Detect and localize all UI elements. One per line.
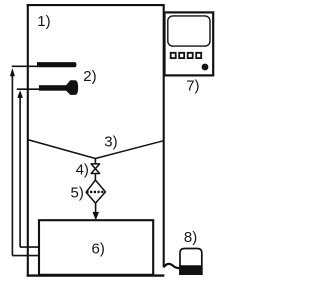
svg-text:8): 8) bbox=[184, 229, 197, 246]
monitor 7 button 4 bbox=[196, 53, 201, 58]
wire 2 bottom horizontal bbox=[20, 246, 39, 248]
filter 5 dashed diagonal bbox=[86, 191, 105, 193]
svg-text:1): 1) bbox=[37, 13, 50, 30]
monitor 7 screen bbox=[168, 16, 210, 46]
funnel 3 left line bbox=[28, 140, 96, 159]
electrode 2a lead bbox=[12, 65, 38, 67]
monitor 7 power dot bbox=[202, 64, 209, 71]
pump 8 hose bbox=[164, 264, 181, 268]
wire stem filter to arrow bbox=[95, 203, 97, 214]
monitor 7 box bbox=[165, 12, 214, 75]
electrode 2b bar bbox=[39, 85, 67, 91]
electrode 2a bar bbox=[37, 62, 76, 67]
filter 5 diamond bbox=[86, 180, 105, 203]
svg-text:5): 5) bbox=[71, 184, 84, 201]
monitor 7 button 1 bbox=[171, 53, 176, 58]
funnel 3 right line bbox=[95, 141, 163, 159]
wire 1 bottom horizontal bbox=[12, 255, 39, 257]
valve 4 bowtie bbox=[91, 164, 100, 174]
chamber 1 bottom edge bbox=[27, 274, 165, 276]
electrode 2b lead bbox=[17, 88, 40, 90]
chamber 1 left wall bbox=[27, 4, 29, 277]
wire stem funnel to valve bbox=[94, 158, 96, 164]
pump 8 black base bbox=[179, 265, 202, 275]
chamber 1 right wall bbox=[163, 4, 165, 267]
monitor 7 button 3 bbox=[188, 53, 193, 58]
wire 1 arrowhead bbox=[10, 68, 15, 76]
arrow into tank 6 bbox=[93, 212, 99, 219]
monitor 7 button 2 bbox=[179, 53, 184, 58]
electrode 2b flange bbox=[66, 80, 78, 95]
svg-text:4): 4) bbox=[76, 161, 89, 178]
svg-text:3): 3) bbox=[104, 134, 117, 151]
chamber 1 top edge bbox=[27, 4, 165, 6]
svg-text:6): 6) bbox=[92, 241, 105, 258]
svg-text:7): 7) bbox=[186, 78, 199, 95]
wire 1 vertical bbox=[11, 74, 13, 256]
wire 2 vertical bbox=[19, 96, 21, 247]
wire stem valve to filter bbox=[94, 173, 96, 180]
wire 2 arrowhead bbox=[17, 90, 23, 98]
tank 6 bbox=[39, 220, 153, 275]
pump 8 body bbox=[180, 249, 202, 275]
svg-text:2): 2) bbox=[83, 68, 96, 85]
